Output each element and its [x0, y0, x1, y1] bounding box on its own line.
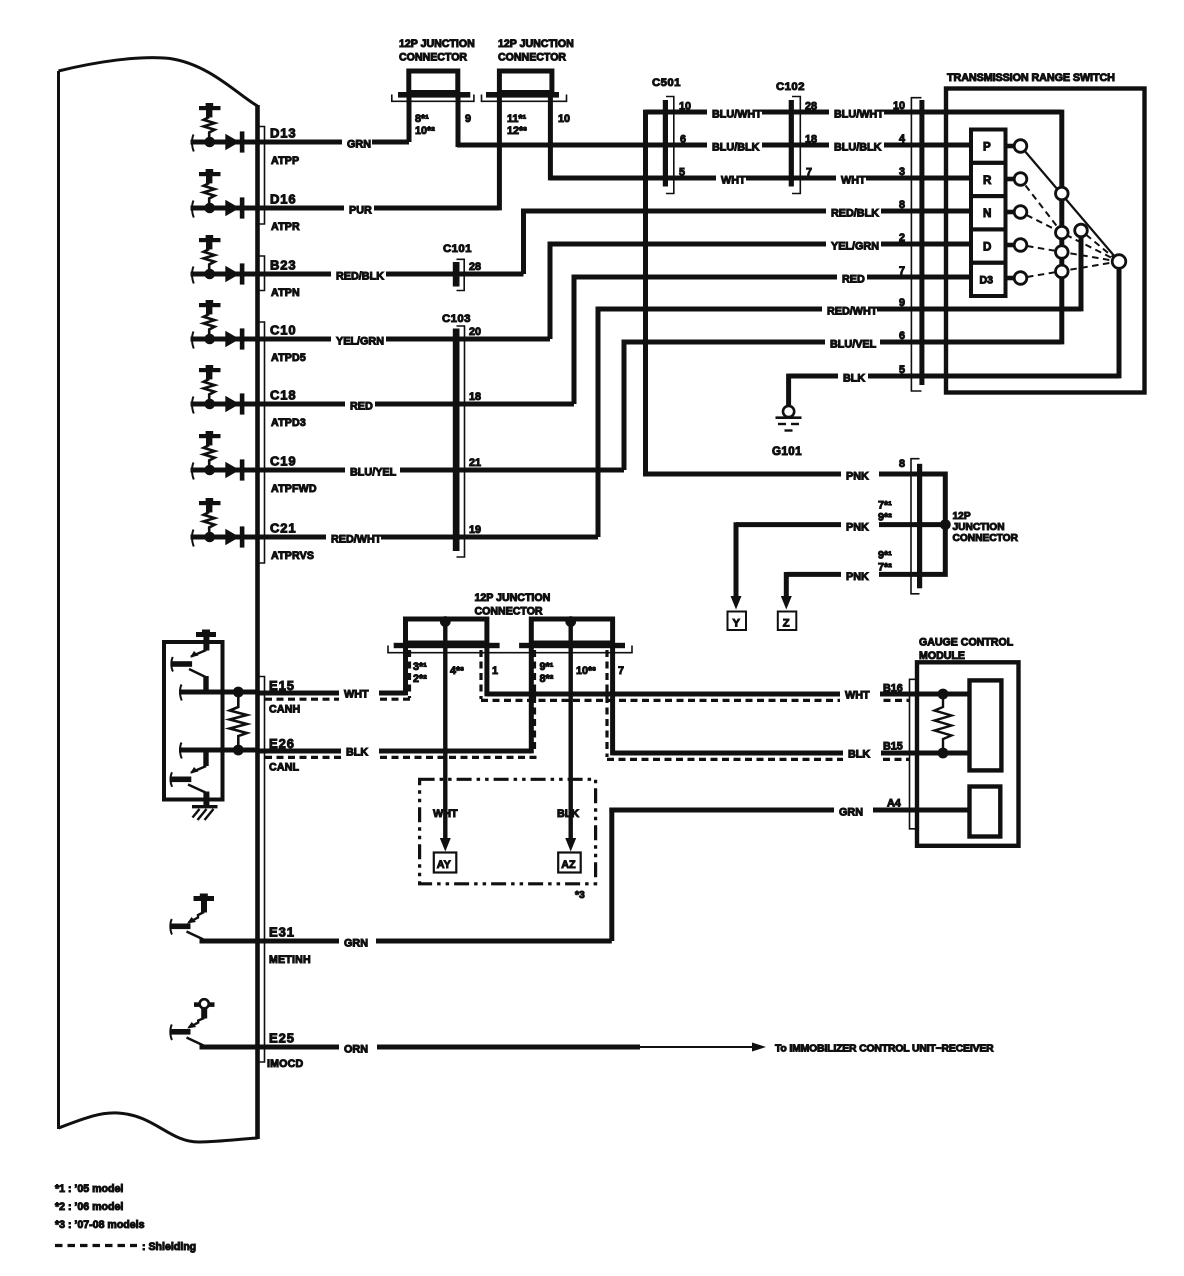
diode at D16 — [225, 200, 239, 216]
TRS contact circle D — [1014, 239, 1027, 252]
svg-text:D13: D13 — [270, 126, 297, 141]
svg-text:7: 7 — [899, 265, 905, 277]
wire PUR from D16 — [191, 206, 500, 211]
svg-text:YEL/GRN: YEL/GRN — [831, 241, 879, 253]
svg-text:11*¹: 11*¹ — [507, 113, 527, 125]
wire color label RED/BLK — [331, 267, 386, 282]
terminal box Z — [778, 612, 797, 631]
bracket under top-right junction connector — [482, 95, 567, 102]
svg-text:BLU/WHT: BLU/WHT — [712, 109, 762, 121]
svg-text:3*¹: 3*¹ — [413, 661, 427, 673]
TRS dashed line D3 — [1027, 263, 1113, 278]
wire RED/WHT row into TRS — [596, 307, 1081, 312]
pull-up resistor at D13 — [204, 117, 215, 139]
svg-text:9: 9 — [465, 113, 471, 125]
pull-up resistor at C19 — [204, 445, 215, 467]
svg-text:To IMMOBILIZER CONTROL UNIT−RE: To IMMOBILIZER CONTROL UNIT−RECEIVER — [775, 1044, 994, 1055]
svg-text:WHT: WHT — [344, 689, 369, 701]
ECM pin D13 ATPP driver circuit — [191, 103, 410, 167]
diode at C18 — [225, 396, 239, 412]
node on jumper loop — [940, 519, 951, 530]
wire ORN from E25 — [200, 1045, 641, 1050]
svg-text:C10: C10 — [270, 323, 297, 338]
svg-text:9: 9 — [899, 297, 905, 309]
wire RED row to TRS D3 — [572, 275, 971, 280]
wire BLK row into TRS — [789, 374, 1119, 379]
power rail T for D16 — [199, 172, 221, 176]
svg-text:WHT: WHT — [841, 175, 866, 187]
svg-text:Y: Y — [733, 618, 741, 630]
svg-text:21: 21 — [469, 457, 481, 469]
transistor Q lower (CANL driver) — [170, 751, 210, 805]
diode at C10 — [225, 331, 239, 347]
svg-text:BLU/VEL: BLU/VEL — [830, 339, 877, 351]
shield dashed BLK left — [265, 756, 537, 759]
TRS dashed line 9-contact — [1086, 235, 1113, 257]
svg-text:GRN: GRN — [839, 807, 863, 819]
pull-up resistor at B23 — [204, 249, 215, 271]
svg-text:PNK: PNK — [846, 521, 869, 533]
power rail T for C19 — [199, 434, 221, 438]
wire PNK row 2 (Y to 12P JC pin 7/9) — [736, 522, 919, 527]
svg-text:Z: Z — [783, 618, 790, 630]
connector C501 bracket — [666, 97, 674, 194]
node at B23 driver — [204, 269, 215, 280]
ECM pin E25 IMOCD driver (transistor with sensor top) — [170, 999, 641, 1070]
svg-text:BLK: BLK — [346, 747, 368, 759]
ground hatch below CAN block — [192, 807, 218, 820]
diode at C21 — [225, 529, 239, 545]
svg-text:BLU/YEL: BLU/YEL — [350, 467, 397, 479]
power rail T for B23 — [199, 238, 221, 242]
TRS position box N — [971, 196, 1006, 229]
base bar E31 — [170, 924, 191, 930]
node at C21 driver — [204, 532, 215, 543]
wire BLU/WHT row (C501-10 to TRS) — [646, 110, 1062, 115]
svg-text:AY: AY — [437, 859, 452, 871]
svg-text:C101: C101 — [443, 243, 472, 255]
svg-text:12P JUNCTION: 12P JUNCTION — [498, 38, 574, 50]
TRS position box D3 — [971, 263, 1006, 296]
node at D16 driver — [204, 203, 215, 214]
svg-text:TRANSMISSION RANGE SWITCH: TRANSMISSION RANGE SWITCH — [947, 72, 1115, 84]
svg-text:*2 : ’06 model: *2 : ’06 model — [55, 1201, 123, 1213]
connector bracket D13-D16 — [260, 127, 265, 225]
TRS contact circle D3 — [1014, 272, 1027, 285]
node at C10 driver — [204, 334, 215, 345]
jumper loop middle stub — [921, 522, 945, 527]
svg-text:7*²: 7*² — [878, 562, 892, 574]
svg-text:9*²: 9*² — [878, 512, 892, 524]
connector bracket E15-E25 — [260, 677, 265, 1063]
svg-text:CANH: CANH — [269, 704, 300, 716]
svg-text:B16: B16 — [883, 683, 903, 695]
terminal box AY — [434, 853, 457, 873]
svg-text:ATPP: ATPP — [271, 155, 299, 167]
svg-text:6: 6 — [899, 330, 905, 342]
svg-text:10*²: 10*² — [415, 125, 435, 137]
TRS position box D — [971, 229, 1006, 262]
12P junction connector (top right) body — [499, 71, 552, 93]
svg-text:C21: C21 — [270, 521, 297, 536]
wire GRN from D13 — [191, 140, 410, 145]
12P junction connector (bottom) body left — [406, 619, 487, 643]
wire GRN riser — [609, 808, 614, 941]
wire YEL/GRN riser from C103-20 — [548, 242, 553, 339]
svg-text:PNK: PNK — [846, 571, 869, 583]
svg-text:GRN: GRN — [347, 139, 371, 151]
svg-text:RED: RED — [842, 274, 865, 286]
wire WHT row (JC 10 to C501-5, C102-7, TRS R) — [550, 176, 971, 181]
wire color label BLU/YEL — [345, 463, 400, 478]
connector C103 bar — [453, 329, 460, 552]
svg-text:R: R — [983, 174, 992, 187]
svg-text:C102: C102 — [776, 81, 805, 93]
svg-text:GAUGE CONTROL: GAUGE CONTROL — [919, 637, 1014, 649]
power rail T for C10 — [199, 303, 221, 307]
svg-text:20: 20 — [469, 326, 481, 338]
TRS wiper solid P contact line — [1021, 146, 1120, 262]
connector C102 bracket — [792, 97, 800, 194]
wire PNK row 1 (from C501-10 vertical to 12P JC pin 8) — [643, 472, 919, 477]
CAN termination resistor — [230, 697, 247, 745]
wire RED/BLK from B23 — [191, 272, 524, 277]
svg-text:12P JUNCTION: 12P JUNCTION — [475, 592, 551, 604]
12P junction connector (bottom) body right — [531, 619, 612, 643]
svg-text:CONNECTOR: CONNECTOR — [953, 533, 1019, 544]
terminal box Y — [728, 612, 747, 631]
svg-text:ATPFWD: ATPFWD — [271, 483, 317, 495]
wire CANH E15 — [179, 690, 258, 695]
leg pin 8/10 of top-left JC — [407, 98, 412, 143]
svg-text:8*¹: 8*¹ — [415, 113, 429, 125]
node at C19 driver — [204, 465, 215, 476]
svg-text:10: 10 — [558, 113, 570, 125]
TRS contact circle P — [1014, 140, 1027, 153]
svg-text:*1 : ’05 model: *1 : ’05 model — [55, 1183, 123, 1195]
connector C103 bracket — [457, 326, 465, 557]
svg-text:7*¹: 7*¹ — [878, 500, 892, 512]
node at C18 driver — [204, 399, 215, 410]
svg-text:9*¹: 9*¹ — [878, 550, 892, 562]
svg-text:2*²: 2*² — [413, 673, 427, 685]
connector bracket C10-C21 — [260, 322, 265, 563]
12P junction connector (right) bar — [917, 464, 922, 589]
svg-text:ATPRVS: ATPRVS — [271, 550, 314, 562]
pull-up resistor at C18 — [204, 379, 215, 401]
svg-text:1: 1 — [492, 665, 498, 677]
TRS dashed line R — [1026, 186, 1059, 228]
transmission range switch box — [946, 89, 1145, 393]
gauge inner block 2 — [970, 787, 1001, 837]
svg-text:WHT: WHT — [845, 690, 870, 702]
ECM pin B23 ATPN driver circuit — [191, 235, 524, 299]
ECM/PCM outline (torn-edge module body) — [59, 58, 258, 106]
svg-text:ORN: ORN — [344, 1044, 368, 1056]
svg-text:B15: B15 — [883, 741, 903, 753]
svg-text:GRN: GRN — [344, 938, 368, 950]
power rail T for C18 — [199, 368, 221, 372]
TRS dashed line N — [1027, 215, 1114, 259]
TRS contact circle R — [1014, 173, 1027, 186]
node B16 inside gauge — [938, 689, 949, 700]
svg-text:BLK: BLK — [848, 749, 870, 761]
wire WHT row right of JC (to gauge B16) — [487, 692, 970, 697]
gauge inner block 1 (CAN unit) — [970, 680, 1002, 770]
svg-text:N: N — [983, 207, 991, 220]
TRS dashed line D — [1027, 246, 1113, 261]
ECM pin C21 ATPRVS driver circuit — [191, 498, 599, 562]
wire B15 stub to inner block — [943, 751, 970, 756]
svg-text:C501: C501 — [652, 77, 681, 89]
svg-text:RED/BLK: RED/BLK — [336, 271, 384, 283]
ECM right wall — [255, 105, 260, 1139]
ground G101 symbol — [783, 406, 794, 417]
node B15 inside gauge — [938, 748, 949, 759]
svg-text:7: 7 — [618, 665, 624, 677]
svg-text:E25: E25 — [269, 1031, 295, 1046]
svg-text:5: 5 — [899, 364, 905, 376]
svg-text:ATPR: ATPR — [271, 221, 300, 233]
wire RED/BLK row to TRS N — [521, 209, 971, 214]
svg-text:RED/WHT: RED/WHT — [331, 534, 382, 546]
legend shielding dashed sample — [55, 1244, 137, 1247]
svg-text:CANL: CANL — [269, 762, 300, 774]
svg-text:BLK: BLK — [557, 808, 579, 820]
power rail T for C21 — [199, 501, 221, 505]
wire color label YEL/GRN — [331, 332, 386, 347]
TRS ladder contact C4 — [1056, 265, 1069, 278]
svg-text:D: D — [983, 240, 991, 253]
TRS contact stubs — [1006, 144, 1016, 149]
svg-text:BLU/BLK: BLU/BLK — [712, 142, 760, 154]
svg-text:D3: D3 — [980, 275, 994, 287]
svg-text:8*²: 8*² — [540, 673, 554, 685]
leg pin 10 of top-right JC (WHT) — [548, 98, 553, 181]
svg-text:C18: C18 — [270, 388, 297, 403]
bracket under top-left junction connector — [392, 95, 474, 102]
svg-text:IMOCD: IMOCD — [267, 1058, 303, 1070]
diode at B23 — [225, 266, 239, 282]
wire YEL/GRN row to TRS D — [548, 242, 971, 247]
terminal box AZ — [558, 853, 581, 873]
connector C101 bracket — [457, 259, 465, 290]
wire WHT to terminal AY — [443, 622, 447, 840]
svg-text:CONNECTOR: CONNECTOR — [475, 606, 543, 618]
wire color label PUR — [344, 201, 374, 216]
wire BLU/YEL riser from C103-21 — [622, 340, 627, 470]
svg-text:2: 2 — [899, 232, 905, 244]
svg-text:BLU/BLK: BLU/BLK — [834, 142, 882, 154]
12P junction connector (right) jumper loop — [921, 474, 945, 574]
svg-text:C103: C103 — [442, 313, 471, 325]
TRS common ladder vertical (pin 10 side) — [1059, 110, 1064, 345]
wire BLK down-leg to ground — [786, 374, 791, 406]
svg-text:BLK: BLK — [843, 373, 865, 385]
wire BLK (CANL) row left of JC — [256, 749, 531, 754]
svg-text:B23: B23 — [270, 258, 297, 273]
wire to terminal Z — [784, 572, 789, 598]
svg-text:RED/BLK: RED/BLK — [831, 208, 879, 220]
pull-up resistor at C10 — [204, 314, 215, 336]
bracket under bottom junction connector — [388, 646, 632, 653]
connector C101 bar — [453, 262, 460, 287]
pull-up resistor at D16 — [204, 183, 215, 205]
svg-text:G101: G101 — [772, 445, 802, 458]
shield dashed WHT left — [265, 698, 412, 701]
svg-text:12P JUNCTION: 12P JUNCTION — [399, 38, 475, 50]
svg-text:RED: RED — [350, 401, 373, 413]
ECM pin D16 ATPR driver circuit — [191, 169, 500, 233]
TRS pivot vertical (pin 5 side) — [1117, 262, 1122, 379]
wire color label RED/WHT — [326, 530, 381, 545]
shield dashed WHT right — [481, 699, 910, 702]
wire CANL E26 — [179, 748, 258, 753]
svg-text:ATPD5: ATPD5 — [271, 352, 306, 364]
node on JC top (AZ tap) — [565, 616, 576, 627]
wire RED/WHT riser from C103-19 — [596, 307, 601, 537]
gauge termination resistor — [935, 699, 952, 748]
svg-text:19: 19 — [469, 524, 481, 536]
gauge module connector bracket — [910, 679, 918, 829]
TRS contact circle N — [1014, 206, 1027, 219]
wire RED riser from C103-18 — [572, 275, 577, 404]
wire ORN to immobilizer (thin lead with arrow) — [638, 1046, 753, 1048]
TRS ladder contact C3 — [1056, 246, 1069, 259]
svg-text:12P: 12P — [953, 511, 971, 522]
wire BLK row right of JC (to gauge B15) — [613, 751, 970, 756]
svg-text:8: 8 — [899, 458, 905, 470]
svg-text:WHT: WHT — [721, 175, 746, 187]
svg-text:4: 4 — [899, 133, 905, 145]
ECM pin C18 ATPD3 driver circuit — [191, 365, 575, 429]
wire PNK row 3 (Z to 12P JC pin 9/7) — [786, 572, 919, 577]
svg-text:P: P — [983, 141, 991, 154]
12P junction connector (top left) body — [409, 71, 458, 93]
TRS vertical (pin 9 side) — [1079, 231, 1084, 312]
svg-text:: Shielding: : Shielding — [142, 1241, 196, 1253]
svg-text:RED/WHT: RED/WHT — [827, 306, 878, 318]
svg-text:ATPN: ATPN — [271, 287, 300, 299]
node CANH/terminator — [233, 687, 244, 698]
leg pin 9 of top-left JC — [456, 98, 461, 148]
ECM left wall — [57, 71, 60, 1129]
svg-text:CONNECTOR: CONNECTOR — [498, 52, 566, 64]
svg-text:9*¹: 9*¹ — [540, 661, 554, 673]
svg-text:AZ: AZ — [561, 859, 576, 871]
wire color label GRN — [342, 135, 372, 150]
connector bracket B23 — [260, 256, 265, 291]
diode at D13 — [225, 134, 239, 150]
svg-text:8: 8 — [899, 199, 905, 211]
svg-text:CONNECTOR: CONNECTOR — [399, 52, 467, 64]
JC bottom legs — [403, 646, 408, 695]
wire color label GRN — [339, 934, 376, 949]
ECM pin E31 METINH driver (transistor) — [170, 894, 612, 967]
node at D13 driver — [204, 137, 215, 148]
svg-text:12*³: 12*³ — [507, 125, 527, 137]
svg-text:E31: E31 — [269, 925, 295, 940]
wire RED/BLK riser from C101 — [521, 209, 526, 274]
wire to terminal Y — [734, 522, 739, 598]
wire GRN from E31 — [200, 939, 612, 944]
dash-dot boundary box (07-08 models) — [420, 779, 596, 884]
power rail T for D13 — [199, 106, 221, 110]
TRS connector bar — [919, 100, 924, 385]
base bar E25 — [170, 1029, 191, 1035]
svg-text:*3: *3 — [575, 890, 585, 901]
svg-text:D16: D16 — [270, 192, 297, 207]
wire YEL/GRN from C10 — [191, 337, 551, 342]
TRS connector bracket — [911, 98, 921, 391]
ECM pin C10 ATPD5 driver circuit — [191, 300, 551, 364]
CAN transceiver block in ECM — [164, 642, 223, 800]
TRS ladder contact C1 — [1056, 187, 1069, 200]
svg-text:10*³: 10*³ — [576, 665, 596, 677]
wire RED from C18 — [191, 402, 575, 407]
node on JC top (AY tap) — [440, 616, 451, 627]
svg-text:ATPD3: ATPD3 — [271, 417, 306, 429]
wire C501-10 to PNK junction (long vertical) — [643, 110, 648, 477]
connector C501 bar — [663, 100, 668, 187]
wire GRN row (E31 to gauge A4) — [609, 808, 969, 813]
pull-up resistor at C21 — [204, 512, 215, 534]
gauge control module box — [917, 662, 1019, 846]
svg-text:18: 18 — [469, 391, 481, 403]
wire RED/WHT from C21 — [191, 535, 599, 540]
svg-text:YEL/GRN: YEL/GRN — [336, 336, 384, 348]
TRS pivot contact — [1112, 255, 1126, 269]
shield dashed BLK right — [607, 758, 910, 761]
svg-text:PNK: PNK — [846, 471, 869, 483]
svg-text:WHT: WHT — [433, 808, 458, 820]
svg-text:PUR: PUR — [349, 205, 372, 217]
svg-text:BLU/WHT: BLU/WHT — [834, 109, 884, 121]
TRS position box R — [971, 163, 1006, 196]
TRS ladder contact C2 — [1056, 226, 1069, 239]
connector C102 bar — [789, 100, 794, 187]
shield dashed verticals at JC legs — [408, 650, 411, 698]
svg-text:28: 28 — [469, 261, 481, 273]
wire BLU/BLK row (JC 9 to C501-6, C102-18, TRS P) — [457, 143, 971, 148]
svg-text:10: 10 — [893, 100, 905, 112]
svg-text:C19: C19 — [270, 454, 297, 469]
svg-text:JUNCTION: JUNCTION — [953, 522, 1005, 533]
wire BLU/YEL from C19 — [191, 468, 625, 473]
diode at C19 — [225, 462, 239, 478]
node CANL/terminator — [233, 745, 244, 756]
wire WHT (CANH) row left of JC — [256, 691, 406, 696]
wire color label ORN — [339, 1040, 377, 1055]
power rail T above CAN block — [196, 632, 216, 637]
svg-text:4*³: 4*³ — [450, 665, 464, 677]
12P junction connector (right) bracket — [911, 459, 920, 594]
transistor Q upper (CANH driver) — [171, 650, 209, 691]
wire color label RED — [345, 397, 375, 412]
wire BLU/VEL row into TRS — [622, 340, 1062, 345]
TRS position box P — [971, 130, 1006, 163]
ECM pin C19 ATPFWD driver circuit — [191, 431, 625, 495]
svg-text:METINH: METINH — [269, 954, 311, 966]
TRS contact C5 — [1075, 224, 1088, 237]
svg-text:*3 : ’07-08 models: *3 : ’07-08 models — [55, 1219, 145, 1231]
wire BLK to terminal AZ — [569, 622, 573, 840]
svg-text:3: 3 — [899, 166, 905, 178]
leg pin 11/12 of top-right JC (PUR) — [497, 98, 502, 211]
